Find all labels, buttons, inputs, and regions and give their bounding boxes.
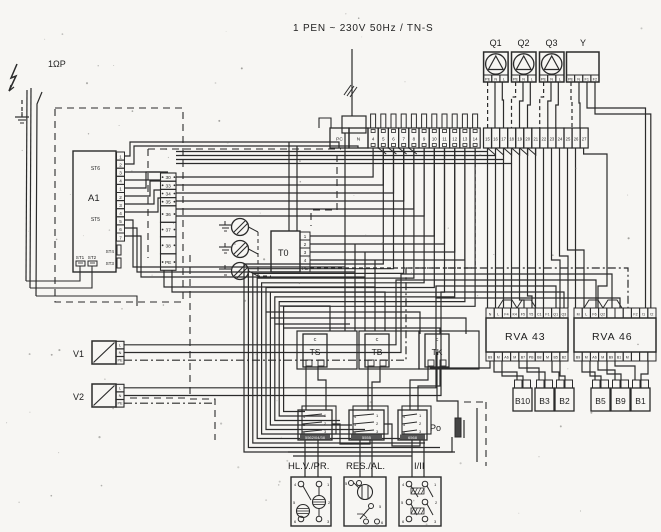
connector ST4 (117, 245, 121, 255)
wire T0 PE dashed (310, 148, 475, 268)
svg-text:3: 3 (119, 171, 122, 176)
svg-text:B7: B7 (521, 356, 525, 360)
wire T0 pin2 (310, 148, 445, 244)
wire dashed lamp bus (258, 232, 271, 276)
terminals of V2 (116, 384, 124, 392)
svg-text:C1: C1 (537, 313, 542, 317)
svg-text:HL.V./PR.: HL.V./PR. (288, 461, 329, 472)
svg-text:6: 6 (119, 227, 122, 232)
wire RVA43 to B3 b (527, 361, 545, 380)
dashed boundary mid-left (190, 255, 215, 440)
lamp in S1 right (313, 496, 326, 509)
wire Q2 L (528, 82, 531, 128)
sensor B5 body (591, 388, 610, 411)
switch S1 HL.V./PR. box (291, 477, 331, 526)
wire A1 pin7 drop (125, 220, 346, 267)
wire bundle line 2 (253, 148, 425, 443)
earth symbol at lamp H1 (219, 224, 231, 226)
svg-text:M: M (585, 356, 588, 360)
RVA 43 top terminal row (486, 308, 494, 318)
wire feed RVA46 from bundle (436, 286, 620, 308)
wire 21 to RVA43 (535, 148, 537, 308)
svg-text:L: L (497, 313, 499, 317)
svg-text:N: N (119, 351, 122, 355)
controller A1 body (73, 151, 116, 272)
svg-text:RVA 43: RVA 43 (505, 331, 546, 343)
dashed boundary bottom-left (130, 397, 190, 399)
svg-text:33: 33 (166, 183, 172, 189)
svg-text:Q3: Q3 (562, 313, 567, 317)
wire ST2 drop (91, 266, 93, 288)
wire RVA46 to B9 a (598, 361, 615, 380)
earth symbol at lamp H3 (219, 268, 231, 270)
wire V2 L (124, 286, 556, 388)
wire bus to TK pin (284, 328, 440, 334)
thermostat TK body (425, 334, 449, 367)
wire module M3 to switch S3 a (411, 440, 413, 477)
svg-text:Y5: Y5 (529, 313, 533, 317)
wire RVA46 to B5 b (590, 361, 601, 380)
wire Q1 PE dashed (487, 82, 489, 128)
relay module 6568 socket (402, 406, 431, 434)
svg-text:L: L (119, 343, 121, 347)
wire 24 to RVA46 (560, 148, 569, 308)
wire Y PE dashed (571, 82, 572, 128)
svg-text:T0: T0 (278, 248, 289, 258)
wire bundle line 8 (279, 148, 465, 416)
wire bus to 16 (176, 148, 496, 156)
svg-text:c: c (314, 337, 317, 343)
relay module 5555 body (349, 410, 384, 440)
wire T0 pin3 (310, 148, 455, 252)
wire RVA43 exit left a (430, 361, 490, 368)
svg-text:F2: F2 (593, 77, 597, 81)
svg-text:RVA 46: RVA 46 (592, 331, 633, 343)
wire 27 to RVA46 wrap (584, 148, 607, 308)
svg-text:23: 23 (550, 137, 555, 142)
wire TB to module M2 b (372, 366, 380, 410)
connector ST6/ST5 pin strip of A1 (117, 152, 125, 160)
wire vertical to TB area (364, 252, 366, 331)
earth symbol at lamp H2 (219, 246, 231, 248)
dashed cabinet boundary near PC (311, 155, 337, 226)
svg-text:2: 2 (119, 162, 122, 167)
wire bus to 19 (125, 171, 169, 173)
wire V2 N (124, 292, 564, 396)
wire Q2 PE dashed (512, 82, 516, 128)
wire Q1 L (502, 82, 503, 128)
wire T0 primary a (288, 142, 290, 231)
svg-text:10: 10 (432, 137, 437, 142)
wire Q3 N (548, 82, 551, 128)
relay module 5555 socket (353, 406, 388, 434)
wire terminal 8 to X2-36 (176, 148, 414, 209)
valve actuator V2 body (92, 384, 116, 407)
svg-text:M: M (601, 356, 604, 360)
wire lamp H2 tail (249, 249, 259, 254)
svg-text:Po: Po (430, 423, 441, 433)
svg-text:L: L (119, 386, 121, 390)
svg-text:M: M (577, 313, 580, 317)
relay module 6568 body (398, 410, 427, 440)
wire 18 to RVA43 (511, 164, 513, 309)
wire bundle line 7 (275, 148, 455, 421)
switch S2 RES./AL. box (344, 477, 386, 526)
wire Q3 PE dashed (540, 82, 544, 128)
wire bus to 17 (176, 148, 504, 160)
svg-text:Q1: Q1 (553, 313, 558, 317)
connector pins of T0 (300, 232, 310, 240)
svg-text:4: 4 (119, 179, 122, 184)
wire RVA43 to B3 a (519, 361, 539, 380)
wire bus X2-30 to 15 (176, 148, 488, 152)
controller RVA 43 body (486, 318, 568, 352)
wire right of Po vertical (476, 408, 478, 462)
wire module M1 to switch S1 a (304, 440, 306, 477)
svg-text:13: 13 (462, 137, 467, 142)
wire A1 pin8 drop (125, 228, 356, 272)
svg-text:B9: B9 (488, 356, 492, 360)
wire TS to module M1 b (318, 366, 326, 410)
wire terminal 5 to X2 (176, 148, 383, 185)
wire Po right stub (463, 420, 465, 438)
terminals PE N L of Q1 (484, 75, 492, 82)
wire TB to module M2 a (367, 366, 369, 410)
wire 22 to RVA43 (543, 148, 545, 308)
wire Y F1 (587, 82, 646, 308)
dashed boundary near Po (464, 401, 486, 403)
wire bus to TK (271, 318, 466, 334)
wire bus to TS top (280, 306, 330, 331)
valve actuator Y body (567, 52, 600, 82)
wire Q2 N (520, 82, 524, 128)
lightning arrester symbol (9, 64, 17, 91)
svg-text:36: 36 (166, 212, 172, 218)
thermostat TK outer cover (419, 331, 479, 369)
svg-text:B9: B9 (576, 356, 580, 360)
relay module 5562/04/38 body (298, 410, 332, 440)
terminal strip X1 terminals PC N 4-14 (330, 128, 349, 148)
buzzer symbol in S2 (358, 485, 373, 500)
wire A1 pin3 stub (125, 172, 161, 188)
svg-text:B1: B1 (635, 396, 646, 406)
svg-text:N: N (550, 77, 553, 81)
svg-text:11: 11 (442, 137, 447, 142)
wire A1 pin6 stub (125, 198, 161, 212)
svg-text:N: N (522, 77, 525, 81)
svg-text:L: L (503, 77, 505, 81)
svg-text:L: L (559, 77, 561, 81)
svg-text:1: 1 (119, 187, 122, 192)
svg-text:F5: F5 (521, 313, 525, 317)
svg-text:20: 20 (525, 137, 530, 142)
svg-text:F2: F2 (633, 313, 637, 317)
sensor B10 body (513, 388, 532, 411)
wire bundle line 4 (262, 148, 425, 434)
indicator lamp H3 hatched circle (232, 263, 249, 280)
wire V2 PE dash-dot (124, 402, 213, 404)
svg-text:I/II: I/II (414, 461, 425, 472)
svg-text:1: 1 (119, 154, 122, 159)
svg-text:14: 14 (473, 137, 478, 142)
wire modules bottom run (288, 437, 452, 452)
svg-text:5562/04/38: 5562/04/38 (305, 435, 326, 440)
svg-text:N: N (489, 313, 492, 317)
terminals of V1 (116, 341, 124, 349)
wire RVA46 to B9 b (607, 361, 621, 380)
svg-text:c: c (376, 337, 379, 343)
svg-text:Q1: Q1 (490, 38, 502, 48)
svg-text:34: 34 (166, 192, 172, 198)
wire RVA43 to B2 a (552, 361, 559, 380)
svg-text:38: 38 (166, 243, 172, 249)
thermostat TS body (303, 334, 327, 367)
sensor B2 body (555, 388, 574, 411)
svg-text:24: 24 (558, 137, 563, 142)
svg-text:F1: F1 (585, 77, 589, 81)
pump Q3 body (540, 52, 565, 82)
svg-text:L: L (531, 77, 533, 81)
RVA 43 bottom terminal row (486, 352, 494, 361)
dashed cabinet boundary left (147, 149, 149, 258)
wire equipotential run to ST2 (30, 268, 92, 288)
svg-text:N: N (577, 77, 580, 81)
switch S3 I/II box (399, 477, 441, 526)
wire Q3 L (556, 82, 559, 128)
wire TK to module M3 a (410, 366, 428, 410)
wire bundle line 5 (266, 148, 434, 430)
svg-text:t1: t1 (642, 313, 645, 317)
wire earth lead dashed (21, 100, 23, 116)
svg-text:PE: PE (541, 77, 547, 81)
wire equipotential run under A1 (36, 296, 137, 306)
wire 19 to RVA43 (520, 148, 525, 308)
wire TS to module M1 a (305, 366, 307, 410)
wire terminal 6 to X2 (176, 148, 394, 193)
svg-text:B9: B9 (615, 396, 626, 406)
terminals PE N L of Q3 (540, 75, 548, 82)
svg-text:16: 16 (493, 137, 498, 142)
wire vertical to TS area 2 (354, 244, 356, 331)
wire 26 to RVA46 straight (575, 148, 577, 308)
svg-text:Q2: Q2 (517, 38, 529, 48)
svg-text:B9: B9 (609, 356, 613, 360)
svg-text:21: 21 (533, 137, 538, 142)
svg-text:c: c (436, 337, 439, 343)
svg-text:N: N (494, 77, 497, 81)
svg-text:B3: B3 (539, 396, 550, 406)
svg-text:N: N (119, 394, 122, 398)
wire bundle line 3 (257, 148, 414, 439)
wire equipotential run to ST1 (26, 268, 80, 281)
wire loop left of PC (319, 118, 331, 128)
wire terminal 9 to X2-37 (176, 148, 424, 216)
wire A1 pin5 stub (125, 190, 161, 204)
svg-text:F6: F6 (592, 313, 596, 317)
svg-text:B5: B5 (553, 356, 557, 360)
sensor B9 body (611, 388, 630, 411)
terminals of Y (567, 75, 575, 82)
svg-text:35: 35 (166, 200, 172, 206)
svg-text:B1: B1 (617, 356, 621, 360)
svg-text:N: N (357, 137, 361, 143)
svg-text:5555: 5555 (362, 435, 372, 440)
dashed enclosure box around controller A1 (55, 108, 183, 302)
wire V1 N (124, 274, 612, 353)
svg-text:PE: PE (117, 359, 123, 363)
svg-text:ST4: ST4 (106, 249, 115, 254)
svg-text:30: 30 (166, 175, 172, 181)
wire incoming supply line (351, 49, 353, 116)
indicator lamp H1 hatched circle (232, 219, 249, 236)
wire vertical to TS area 1 (344, 133, 346, 331)
svg-text:1ΩP: 1ΩP (48, 59, 66, 69)
wire module link 2 (384, 424, 420, 446)
wire 17 to RVA43 (503, 160, 505, 309)
wire lamp H3 tail (249, 271, 259, 276)
wire bus to 20 (125, 179, 161, 181)
svg-text:A6: A6 (504, 356, 508, 360)
svg-text:3: 3 (119, 203, 122, 208)
wire T0 pin1 (310, 148, 434, 236)
connector ST3 (117, 258, 121, 268)
switch levers in S3 (411, 486, 418, 497)
wire main equipotential conductor 1 (26, 90, 27, 281)
svg-text:5: 5 (119, 219, 122, 224)
wire 15 to RVA43 (487, 152, 489, 309)
wire bonding conductor to 1-ohm-P (36, 92, 42, 296)
wire A1 pin4 stub (125, 181, 161, 196)
svg-text:Q2: Q2 (600, 313, 605, 317)
wire ST1 drop (79, 266, 81, 281)
wire 23 to RVA46 (552, 148, 561, 308)
svg-text:M: M (497, 356, 500, 360)
wire main equipotential conductor 2 (30, 88, 31, 288)
cable core count marks (347, 86, 354, 96)
svg-text:ST5: ST5 (91, 217, 100, 223)
svg-text:PE: PE (513, 77, 519, 81)
wire module link 1 (332, 424, 370, 444)
svg-text:25: 25 (566, 137, 571, 142)
terminals PE N L of Q2 (512, 75, 520, 82)
wire A1 pin9 drop (125, 236, 366, 277)
svg-text:PE: PE (485, 77, 491, 81)
sensor B1 body (631, 388, 650, 411)
svg-text:PE: PE (117, 402, 123, 406)
wire bus to 18 (176, 148, 512, 164)
svg-text:M: M (626, 356, 629, 360)
dashed cabinet boundary top (148, 148, 341, 150)
pump Q1 body (484, 52, 509, 82)
wire RVA46 to B1 b (641, 361, 648, 380)
hatched link lower in S3 (411, 508, 424, 514)
svg-text:K4: K4 (512, 313, 516, 317)
terminal strip X2 terminals 30-38 PE (161, 173, 177, 181)
thermostat TS outer cover (297, 331, 357, 369)
svg-text:A6: A6 (592, 356, 596, 360)
thermostat TB body (365, 334, 389, 367)
wire RVA46 to B5 a (582, 361, 595, 380)
wire 16 to RVA43 (495, 156, 497, 309)
thermostat TB outer cover (359, 331, 419, 369)
wire Po top (437, 352, 458, 418)
wire bus low (275, 323, 350, 325)
transformer T0 body (271, 231, 300, 272)
wire RVA46 to B1 a (615, 361, 635, 380)
wire vertical to TK area (374, 260, 376, 331)
svg-text:4: 4 (119, 211, 122, 216)
wire T0 pin4 (310, 148, 465, 260)
svg-text:F4: F4 (504, 313, 508, 317)
wire RVA43 to B10 b (502, 361, 523, 380)
svg-text:1 PEN ~ 230V 50Hz / TN-S: 1 PEN ~ 230V 50Hz / TN-S (293, 23, 433, 34)
wire lamp H1 tail (249, 227, 259, 232)
svg-text:17: 17 (501, 137, 506, 142)
svg-text:B8: B8 (537, 356, 541, 360)
svg-text:V1: V1 (73, 349, 84, 359)
svg-text:ST6: ST6 (91, 166, 100, 172)
jumper links below X1 5-9 (378, 148, 386, 154)
wire modules bottom run 2 (293, 455, 412, 457)
RVA 46 bottom terminal row (574, 352, 582, 361)
svg-text:TB: TB (372, 347, 383, 357)
svg-text:2: 2 (119, 195, 122, 200)
wire module M1 to switch S1 b (317, 440, 319, 477)
lamp in S1 left (297, 505, 310, 518)
wire bundle line 9 (284, 148, 476, 412)
wire module M3 to switch S3 b (423, 440, 425, 477)
svg-text:B5: B5 (595, 396, 606, 406)
wire Y F2 (595, 82, 651, 308)
indicator lamp H2 hatched circle (232, 241, 249, 258)
svg-text:PE: PE (165, 260, 171, 266)
svg-text:37: 37 (166, 228, 172, 234)
svg-text:PE: PE (568, 77, 574, 81)
wire terminal 7 to X2 (176, 148, 404, 201)
wire module M2 to switch S2 a (359, 440, 361, 477)
svg-text:M: M (513, 356, 516, 360)
jumper links below X1 15-27 (488, 148, 496, 155)
svg-text:ST2: ST2 (88, 255, 97, 260)
wire Q1 N (494, 82, 496, 128)
pump Q2 body (512, 52, 537, 82)
svg-text:Y: Y (580, 38, 586, 48)
wire bundle line 6 (270, 148, 444, 425)
svg-text:22: 22 (542, 137, 547, 142)
jumpers above RVA 43 (498, 300, 517, 308)
hatched link upper in S3 (411, 488, 424, 494)
svg-text:12: 12 (452, 137, 457, 142)
svg-text:ST3: ST3 (106, 261, 115, 266)
svg-text:27: 27 (582, 137, 587, 142)
svg-text:26: 26 (574, 137, 579, 142)
wire X2-38 drop (164, 270, 375, 287)
svg-text:PB: PB (529, 356, 534, 360)
wire TK to module M3 b (418, 366, 440, 410)
wire bundle line 1 (248, 148, 440, 448)
svg-text:18: 18 (509, 137, 514, 142)
wire 25 to RVA46 (568, 148, 585, 308)
wire T0 primary b (296, 146, 298, 231)
wire bus A1 pin1 to PC (125, 142, 340, 156)
wire module M2 to switch S2 b (371, 440, 373, 477)
wire RVA43 to B2 b (560, 361, 565, 380)
svg-text:B2: B2 (559, 396, 570, 406)
svg-text:B10: B10 (515, 396, 530, 406)
switch lever in S1 (303, 486, 311, 500)
relay module 5562/04/38 socket (302, 406, 336, 434)
svg-text:A1: A1 (88, 193, 100, 204)
